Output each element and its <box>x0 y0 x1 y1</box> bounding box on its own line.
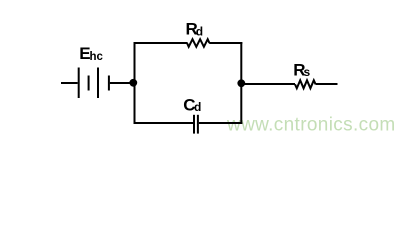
wire top right segment <box>209 42 242 44</box>
node junction dot right <box>237 79 245 87</box>
wire bottom left segment <box>134 122 194 124</box>
capacitor Cd <box>194 115 198 134</box>
label Ehc <box>79 44 103 63</box>
svg-text:d: d <box>196 24 203 38</box>
wire Rs right lead <box>316 83 338 85</box>
wire right node to Rs <box>241 83 295 85</box>
label Rs <box>293 60 310 79</box>
wire right vertical of parallel loop <box>240 42 242 124</box>
label Cd <box>183 95 201 114</box>
resistor Rd <box>187 39 209 47</box>
svg-text:hc: hc <box>90 51 104 63</box>
node junction dot left <box>129 79 137 87</box>
svg-text:s: s <box>304 65 311 79</box>
wire battery left lead <box>61 82 78 84</box>
watermark text www.cntronics.com <box>226 115 396 136</box>
resistor Rs <box>295 80 316 88</box>
battery Ehc <box>79 68 109 99</box>
svg-text:d: d <box>194 100 201 114</box>
svg-text:www.cntronics.com: www.cntronics.com <box>226 115 396 136</box>
label Rd <box>186 19 204 38</box>
wire battery to left node <box>110 82 133 84</box>
wire left vertical of parallel loop <box>134 42 136 124</box>
wire bottom right segment <box>199 122 242 124</box>
wire top left segment <box>134 42 188 44</box>
